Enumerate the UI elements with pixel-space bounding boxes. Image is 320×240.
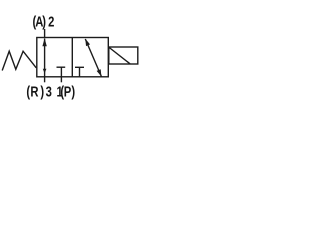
svg-text:): ) [71,83,75,100]
svg-text:): ) [42,13,46,30]
svg-text:R: R [30,83,38,100]
svg-text:P: P [64,83,72,100]
svg-text:2: 2 [48,13,54,30]
svg-text:3: 3 [46,83,52,100]
svg-text:): ) [40,83,44,100]
